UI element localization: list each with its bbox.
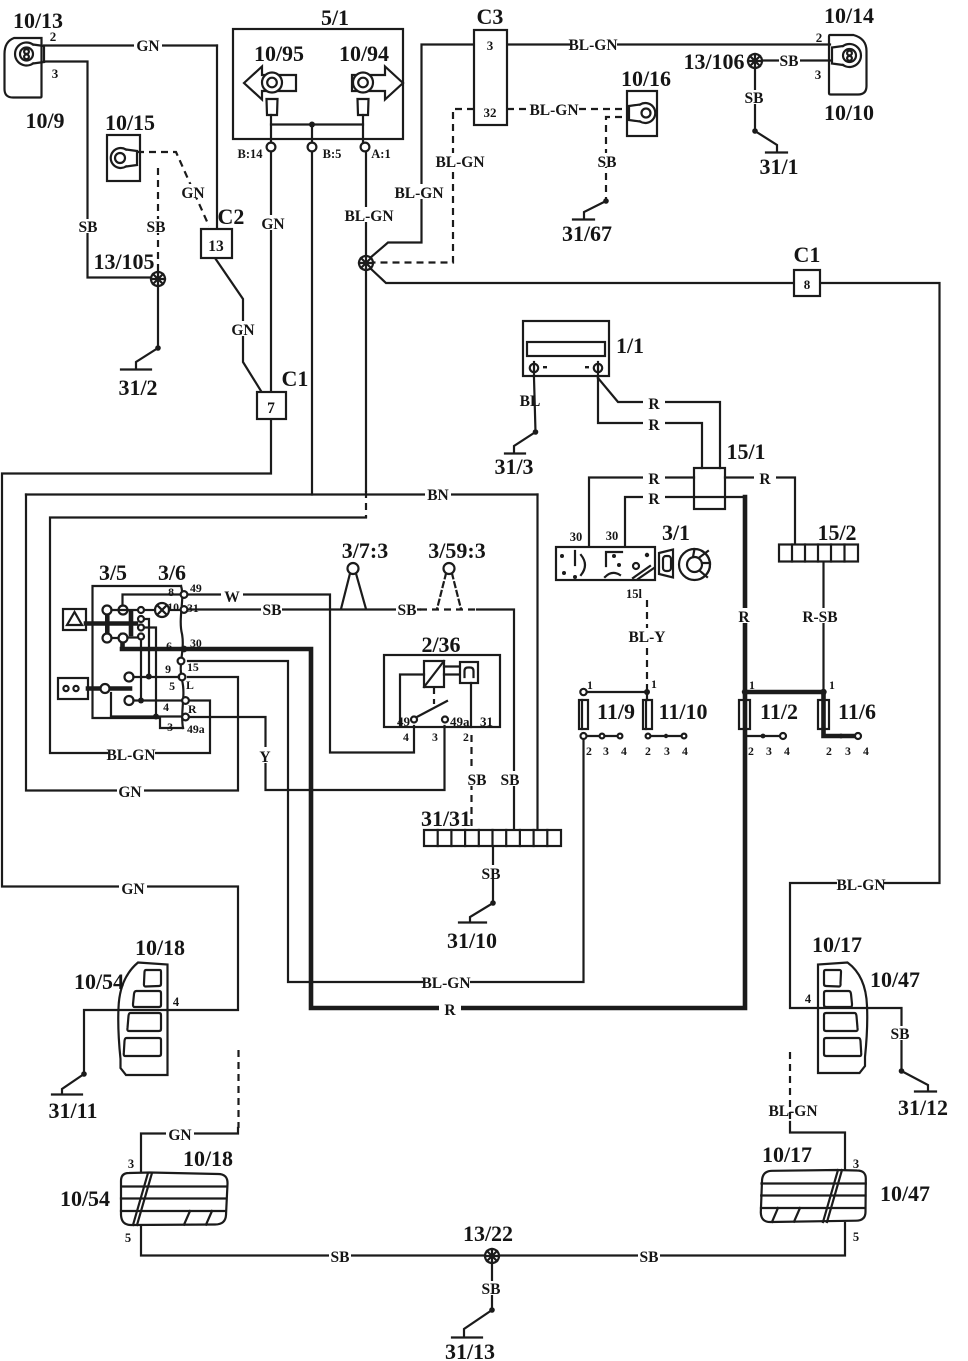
svg-text:13/22: 13/22 [463, 1221, 513, 1246]
wire label BL-GN right loop [836, 876, 885, 894]
svg-text:10/16: 10/16 [621, 66, 671, 91]
svg-text:2: 2 [463, 730, 469, 744]
wire SB from 13/106 to 10/14 pin 3 [762, 59, 830, 61]
svg-text:SB: SB [263, 602, 282, 619]
svg-text:3: 3 [487, 38, 494, 53]
svg-text:10/18: 10/18 [183, 1146, 233, 1171]
svg-text:1: 1 [749, 678, 755, 692]
svg-text:10/54: 10/54 [74, 969, 124, 994]
wire label BL 1/1 [520, 393, 541, 410]
lamp 10/14 body [829, 35, 867, 95]
wire dashed BL-GN from C3 pin 32 to 10/16 [507, 108, 627, 110]
svg-text:11/9: 11/9 [597, 699, 635, 724]
svg-text:3: 3 [853, 1157, 859, 1171]
switch contact rows 3/6 [111, 673, 182, 720]
svg-text:6: 6 [166, 639, 172, 653]
ground 31/11 [52, 1071, 87, 1094]
svg-text:4: 4 [173, 995, 180, 1009]
ground 31/13 [452, 1307, 495, 1337]
svg-text:R: R [648, 417, 660, 434]
single pin connector 3/59:3 [437, 563, 461, 609]
svg-text:BL-GN: BL-GN [344, 208, 393, 225]
wire label SB below strip [481, 865, 502, 883]
svg-text:SB: SB [468, 772, 487, 789]
svg-text:BL-GN: BL-GN [435, 154, 484, 171]
wire label BL-GN drop [768, 1103, 817, 1120]
svg-text:13: 13 [208, 238, 224, 255]
rear lamp 10/17 upper [818, 963, 867, 1074]
ground strip 31/31 [424, 830, 561, 846]
wire label SB to strip b [500, 771, 521, 789]
svg-text:SB: SB [780, 53, 799, 70]
single pin connector 3/7:3 [341, 563, 366, 609]
wire label BL-GN A:1 [344, 207, 393, 225]
arrow indicator 10/94 [352, 67, 403, 116]
fuse 11/2 [739, 689, 786, 739]
ground 31/2 [121, 345, 161, 369]
hazard warning triangle symbol [63, 609, 86, 630]
wire label GN B:14 [260, 215, 287, 233]
svg-text:10/10: 10/10 [824, 100, 874, 125]
wires inside 5/1 and terminals B:14 B:5 A:1 [267, 115, 370, 151]
svg-text:13/106: 13/106 [683, 49, 744, 74]
svg-text:BL-GN: BL-GN [394, 185, 443, 202]
svg-text:5: 5 [853, 1230, 859, 1244]
wire bold 11/6 through fuse to terminals [824, 692, 859, 736]
wire label SB 13/106 down [744, 90, 765, 107]
wire label SB below 13/22 [481, 1281, 502, 1298]
svg-text:31/13: 31/13 [445, 1339, 495, 1361]
svg-text:31/12: 31/12 [898, 1095, 948, 1120]
svg-text:15/2: 15/2 [817, 520, 856, 545]
ground 31/3 [505, 429, 538, 453]
svg-text:3: 3 [432, 730, 438, 744]
ground 31/1 [752, 128, 787, 152]
connector C1 box 7 [257, 392, 286, 419]
wire switch pin 15 to fuse 11/9 bottom (BL-GN) [188, 661, 584, 982]
svg-text:GN: GN [168, 1127, 191, 1144]
svg-text:GN: GN [136, 38, 159, 55]
connector C2 box 13 [201, 229, 232, 258]
svg-text:SB: SB [598, 154, 617, 171]
svg-text:3/5: 3/5 [99, 560, 127, 585]
wire dashed SB from 10/16 to ground 31/67 [606, 117, 622, 201]
star 13/105 [151, 272, 165, 286]
svg-text:31/31: 31/31 [421, 806, 471, 831]
wire label BL-GN to 11/9 [421, 974, 470, 992]
svg-text:10/17: 10/17 [812, 932, 862, 957]
wire label BL-GN 13/6-C3 [394, 184, 443, 202]
svg-text:3: 3 [128, 1157, 134, 1171]
wire W from switch pin 49 to flasher 2/36 [188, 595, 414, 753]
wire label R to 15/2 [754, 470, 776, 488]
svg-text:1: 1 [651, 677, 657, 691]
flasher relay 2/36 [384, 655, 500, 727]
wire 13/6 below with dashed tail to BL-GN loop [365, 270, 367, 518]
svg-text:4: 4 [784, 744, 790, 758]
svg-text:A:1: A:1 [371, 147, 390, 161]
lamp 10/13 body [5, 38, 42, 98]
svg-text:4: 4 [805, 992, 812, 1006]
svg-text:GN: GN [118, 784, 141, 801]
wire fuse 11/9 terminal 1 to 11/10 terminal 1 [587, 691, 645, 693]
svg-text:10/14: 10/14 [824, 3, 874, 28]
svg-text:BN: BN [427, 487, 449, 504]
svg-text:8: 8 [804, 277, 811, 292]
svg-text:SB: SB [745, 90, 764, 107]
wire dashed BL-GN drop to lower 10/17 [790, 1052, 845, 1170]
svg-text:R: R [648, 471, 660, 488]
svg-text:GN: GN [231, 322, 254, 339]
connector strip 15/2 [779, 545, 858, 562]
svg-text:30: 30 [570, 530, 583, 544]
wire R bold from 15/1 down to fuse 11/2 and switch pin 30 [122, 497, 745, 1008]
svg-text:GN: GN [181, 185, 204, 202]
wire label GN bottom left [119, 880, 147, 898]
svg-text:10/47: 10/47 [880, 1181, 930, 1206]
svg-text:3: 3 [845, 744, 851, 758]
side lamp 10/17 lower [761, 1170, 866, 1222]
wire label SB 13/106 right [779, 53, 800, 70]
hazard switch contacts 3/5 [86, 606, 136, 649]
wire SB below 13/22 to ground 31/13 [491, 1263, 493, 1310]
svg-text:2: 2 [826, 744, 832, 758]
svg-text:BL-GN: BL-GN [768, 1103, 817, 1120]
svg-text:4: 4 [403, 730, 409, 744]
svg-text:R: R [648, 491, 660, 508]
wire dashed GN from 10/15 to C2 [137, 152, 209, 226]
svg-text:SB: SB [501, 772, 520, 789]
svg-text:BL-GN: BL-GN [529, 102, 578, 119]
svg-text:SB: SB [482, 866, 501, 883]
svg-text:7: 7 [267, 400, 275, 417]
wire BN from B:5 to ground strip 31/31 [26, 151, 538, 830]
connector C3 [474, 30, 507, 125]
svg-text:10/95: 10/95 [254, 41, 304, 66]
wire GN loop: C1 7 to front lamp 10/18 [2, 419, 271, 1074]
svg-text:SB: SB [891, 1026, 910, 1043]
fuse pin labels 11/9 [586, 678, 627, 758]
svg-text:11/10: 11/10 [659, 699, 708, 724]
svg-text:R: R [648, 396, 660, 413]
svg-text:3: 3 [815, 67, 822, 82]
wire SB from ground strip 31/31 to 31/10 [492, 846, 494, 903]
switch inner contacts and links [112, 595, 181, 715]
switch pin labels [163, 581, 205, 736]
svg-text:32: 32 [484, 105, 497, 120]
svg-text:49a: 49a [187, 722, 205, 736]
lamp 10/13 bulb [15, 42, 44, 65]
svg-text:10/17: 10/17 [762, 1142, 812, 1167]
svg-text:31/1: 31/1 [759, 154, 798, 179]
wire label R bold bottom [439, 1001, 461, 1019]
svg-text:SB: SB [331, 1249, 350, 1266]
wire label BL-Y [625, 628, 669, 646]
lamp 10/15 [107, 135, 140, 181]
wire label W [221, 588, 243, 606]
svg-text:10: 10 [167, 600, 179, 614]
svg-text:BL-Y: BL-Y [628, 629, 665, 646]
svg-text:5: 5 [125, 1231, 131, 1245]
fuse pin labels 11/2 [748, 678, 790, 758]
svg-text:30: 30 [606, 529, 619, 543]
svg-text:R: R [738, 609, 750, 626]
svg-text:1: 1 [829, 678, 835, 692]
wire SB below 13/105 to ground 31/2 [157, 286, 159, 348]
wire BL-GN from C3 pin 3 to 10/14 [507, 43, 830, 45]
svg-text:3: 3 [664, 744, 670, 758]
svg-text:BL-GN: BL-GN [836, 877, 885, 894]
wire labels R near 1/1 and 15/1 [643, 395, 665, 413]
svg-text:15/1: 15/1 [726, 439, 765, 464]
svg-text:3: 3 [766, 744, 772, 758]
wire label BN [425, 487, 451, 504]
svg-text:49: 49 [397, 714, 411, 729]
star 13/6 [359, 256, 373, 270]
wire GN switch pin L loop to BN [26, 495, 238, 791]
svg-text:13/105: 13/105 [93, 249, 154, 274]
svg-text:GN: GN [261, 216, 284, 233]
wire label SB 10/16 [597, 153, 618, 171]
relay box 5/1 [233, 29, 403, 139]
wire dashed SB from 10/15 down to 13/105 [157, 168, 159, 272]
fuse 11/6 [818, 689, 861, 739]
wire label SB 10/17 [889, 1026, 911, 1043]
wire GN from C2 13 to C1 7 (diagonal) [215, 258, 261, 391]
wire BL-GN from A:1 down to 13/6 [365, 151, 367, 256]
wire SB from switch pin 31 through 3/7:3 to ground strip [188, 610, 514, 831]
svg-text:R-SB: R-SB [802, 609, 837, 626]
rear lamp 10/18 upper [118, 963, 167, 1076]
svg-text:3/7:3: 3/7:3 [342, 538, 388, 563]
svg-text:R: R [188, 702, 197, 716]
wire dashed BL-GN from C3 pin 32 to 13/6 [374, 109, 474, 263]
svg-text:4: 4 [682, 744, 688, 758]
wire label SB bottom rail right [638, 1248, 660, 1266]
svg-text:31/10: 31/10 [447, 928, 497, 953]
svg-text:C3: C3 [477, 4, 504, 29]
svg-text:SB: SB [640, 1249, 659, 1266]
wire SB from 10/13 pin 3 down to 13/105 [44, 62, 150, 278]
svg-text:L: L [186, 678, 194, 692]
wire SB below 13/106 to ground 31/1 [754, 68, 756, 131]
turn signal switch assembly 3/5 3/6 outer box [93, 586, 184, 728]
svg-text:15: 15 [187, 660, 199, 674]
svg-text:15l: 15l [626, 587, 643, 601]
svg-text:3/6: 3/6 [158, 560, 186, 585]
side lamp 10/18 lower [121, 1173, 228, 1226]
wire label GN C2-C1 [230, 321, 257, 339]
indicator lamp inside switch [155, 603, 169, 617]
wire GN from B:14 down into C1 7 [270, 151, 272, 392]
wire label SB switch 2 [396, 601, 417, 619]
lamp 10/14 bulb [832, 44, 861, 67]
wire Y from switch pin 49a to flasher 2/36 [188, 717, 445, 790]
wire label BL-GN to 10/14 [568, 36, 617, 54]
svg-text:BL-GN: BL-GN [421, 975, 470, 992]
svg-text:2: 2 [645, 744, 651, 758]
fuse 11/10 [643, 689, 686, 738]
svg-text:BL-GN: BL-GN [106, 747, 155, 764]
svg-text:5/1: 5/1 [321, 5, 349, 30]
svg-text:2: 2 [586, 744, 592, 758]
wire SB bottom rail from 10/18 to 13/22 to 10/17 [141, 1223, 845, 1256]
star 13/22 [485, 1249, 499, 1263]
flasher 2/36 pin labels [397, 714, 493, 744]
svg-text:C2: C2 [218, 204, 245, 229]
wire label SB switch [261, 601, 282, 619]
svg-text:11/2: 11/2 [760, 699, 798, 724]
svg-text:3: 3 [52, 66, 59, 81]
wire R from 1/1 to 15/1 lower [598, 377, 702, 468]
wire label SB bottom rail left [329, 1248, 351, 1266]
relay 15/1 [694, 468, 725, 509]
svg-text:2: 2 [816, 30, 823, 45]
svg-text:10/18: 10/18 [135, 935, 185, 960]
ground 31/67 [573, 198, 609, 219]
svg-text:SB: SB [398, 602, 417, 619]
svg-text:10/54: 10/54 [60, 1186, 110, 1211]
wire label GN loop [117, 783, 144, 801]
svg-text:10/15: 10/15 [105, 110, 155, 135]
svg-text:31: 31 [187, 601, 199, 615]
svg-text:31: 31 [480, 714, 493, 729]
switch pins [178, 591, 189, 720]
wire dashed BL-Y from 3/1 terminal 15I to fuse 11/10 [646, 600, 648, 690]
svg-text:4: 4 [621, 744, 627, 758]
svg-text:2/36: 2/36 [421, 632, 460, 657]
wire label BL-GN C3:32 dashed [435, 153, 484, 171]
wire R from 15/1 to 15/2 [725, 478, 795, 545]
wire R from 15/1 to 3/1 terminal 30 right [625, 497, 745, 547]
wire bold link 11/2 to 11/6 terminal 1 [745, 690, 824, 695]
wire label R-SB [800, 608, 840, 626]
ignition switch 3/1 [556, 547, 710, 580]
svg-text:3/1: 3/1 [662, 520, 690, 545]
svg-text:GN: GN [121, 881, 144, 898]
svg-text:R: R [759, 471, 771, 488]
turn signal lever symbol [58, 678, 130, 699]
svg-text:10/9: 10/9 [25, 108, 64, 133]
wire GN from 10/13 pin 2 to C2 [44, 46, 217, 230]
wire R from 15/1 to 3/1 terminal 30 left [589, 478, 694, 547]
svg-text:C1: C1 [282, 366, 309, 391]
svg-text:C1: C1 [794, 242, 821, 267]
lamp 10/16 [627, 91, 657, 136]
svg-text:SB: SB [79, 219, 98, 236]
ground 31/12 [899, 1068, 936, 1091]
svg-text:3: 3 [603, 744, 609, 758]
wire label GN top [134, 37, 162, 55]
wire label BL-GN to 10/16 [529, 101, 578, 119]
connector C1 box 8 [794, 270, 820, 296]
svg-text:9: 9 [165, 662, 171, 676]
fuse pin labels 11/6 [826, 678, 869, 758]
svg-text:49: 49 [190, 581, 202, 595]
svg-text:5: 5 [169, 679, 175, 693]
svg-text:SB: SB [482, 1281, 501, 1298]
wire R from 1/1 to 15/1 upper [598, 378, 720, 468]
svg-text:31/11: 31/11 [49, 1098, 98, 1123]
svg-text:BL-GN: BL-GN [568, 37, 617, 54]
svg-text:31/3: 31/3 [494, 454, 533, 479]
wire label SB 10/15 [145, 219, 166, 236]
svg-text:R: R [444, 1002, 456, 1019]
svg-text:10/47: 10/47 [870, 967, 920, 992]
svg-text:B:5: B:5 [323, 147, 342, 161]
svg-text:4: 4 [863, 744, 869, 758]
svg-text:Y: Y [259, 749, 270, 766]
wire label GN dashed diag [181, 184, 206, 202]
ground 31/10 [459, 900, 496, 922]
wire label R on bold vertical [734, 608, 756, 626]
wire BL from 1/1 to ground 31/3 [534, 378, 536, 432]
wire label SB to strip a [467, 771, 488, 789]
svg-text:B:14: B:14 [238, 147, 264, 161]
svg-text:1/1: 1/1 [616, 333, 644, 358]
svg-text:31/2: 31/2 [118, 375, 157, 400]
svg-text:49a: 49a [450, 714, 470, 729]
svg-text:2: 2 [50, 29, 57, 44]
wire label GN drop [166, 1126, 194, 1144]
wire label SB left [77, 219, 98, 236]
svg-text:1: 1 [587, 678, 593, 692]
svg-text:31/67: 31/67 [562, 221, 612, 246]
fuse 11/9 [579, 689, 622, 739]
svg-text:30: 30 [190, 636, 202, 650]
wire BL-GN loop to switch pin R [50, 518, 366, 754]
wire label BL-GN loop [106, 746, 155, 764]
svg-text:10/94: 10/94 [339, 41, 389, 66]
star 13/106 [748, 54, 762, 68]
svg-text:4: 4 [163, 700, 169, 714]
wire BL-GN from 13/6 up to C3 pin 3 [370, 45, 474, 259]
arrow indicator 10/95 [244, 67, 296, 116]
svg-text:SB: SB [147, 219, 166, 236]
wire R-SB from 15/2 down to fuse 11/6 [822, 562, 824, 693]
svg-text:2: 2 [748, 744, 754, 758]
instrument cluster 1/1 [523, 321, 609, 378]
svg-text:3/59:3: 3/59:3 [428, 538, 485, 563]
svg-text:W: W [224, 589, 240, 606]
wire BL-GN from 13/6 through C1 8 down right side to 10/17 [370, 268, 940, 1071]
svg-text:8: 8 [168, 585, 174, 599]
fuse pin labels 11/10 [645, 677, 688, 758]
wire dashed GN drop to lower 10/18 [141, 1050, 239, 1173]
wire label Y [257, 747, 274, 766]
wire dashed SB from 2/36 pin 31 to ground strip [470, 735, 472, 830]
svg-text:BL: BL [520, 393, 541, 410]
svg-text:3: 3 [167, 720, 173, 734]
svg-text:11/6: 11/6 [838, 699, 876, 724]
